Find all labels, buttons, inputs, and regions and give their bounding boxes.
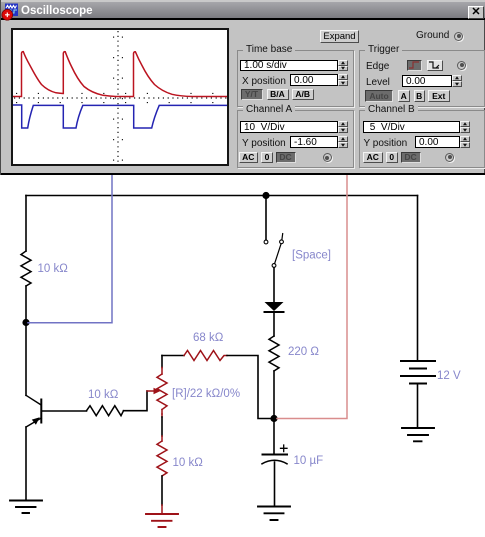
- potentiometer wiper arrow (red): [147, 388, 161, 394]
- Expand button: [320, 30, 359, 43]
- svg-text:[Space]: [Space]: [292, 250, 331, 262]
- resistor R6 220 Ohm (vertical): [269, 336, 279, 371]
- wire: battery to ground: [417, 385, 419, 428]
- wire: 68k corner down to pot top: [161, 356, 163, 368]
- svg-text:220 Ω: 220 Ω: [288, 346, 319, 358]
- battery V1 12 V: [401, 361, 435, 384]
- svg-text:10 µF: 10 µF: [294, 455, 324, 467]
- Channel A group: [237, 110, 354, 168]
- switch S1 [Space]: [264, 234, 283, 268]
- oscilloscope instrument window: [0, 0, 485, 175]
- wire: top rail from left branch to battery: [26, 195, 418, 197]
- resistor R4 68 kOhm (red, horizontal): [184, 351, 227, 361]
- channel B blue trace: [13, 105, 227, 128]
- wire: node B to capacitor: [273, 422, 275, 454]
- label [R]/22 kOhm/0%: [172, 388, 240, 400]
- label 10 uF: [294, 455, 324, 467]
- label 10 kOhm (R5): [173, 457, 204, 469]
- ground (emitter): [10, 501, 42, 514]
- resistor R1 10 kOhm (left vertical): [21, 251, 31, 286]
- wire: R5 to ground (red lower lead): [161, 476, 163, 513]
- wire: scope channel A probe (salmon red): [277, 175, 347, 419]
- wire: left vertical down to R1: [25, 196, 27, 252]
- wire: 68k right lead to corner and down to node B: [227, 356, 271, 419]
- label 12 V: [437, 370, 461, 382]
- ground (red, below R5): [146, 514, 178, 527]
- label [Space]: [292, 250, 331, 262]
- label 10 kOhm (R1): [38, 263, 69, 275]
- dotted horizontal axis: [14, 97, 227, 99]
- svg-text:[R]/22 kΩ/0%: [R]/22 kΩ/0%: [172, 388, 240, 400]
- label 68 kOhm: [193, 332, 224, 344]
- diode D1: [265, 302, 284, 312]
- resistor R2 10 kOhm (base, horizontal): [87, 406, 124, 416]
- wire: R1 bottom to node A: [25, 286, 27, 319]
- wire: diode to R6: [273, 313, 275, 336]
- ground (below capacitor): [258, 507, 290, 521]
- svg-text:10 kΩ: 10 kΩ: [38, 263, 69, 275]
- Channel B group: [359, 110, 485, 168]
- svg-text:10 kΩ: 10 kΩ: [88, 389, 119, 401]
- capacitor C1 10 uF (polarized): [262, 445, 287, 464]
- window icon: [1, 2, 20, 21]
- wire: top rail down to battery: [417, 196, 419, 360]
- 68k left lead wire: [162, 355, 184, 357]
- axis tick dots: [16, 92, 227, 94]
- wire: node C down to switch: [265, 198, 267, 240]
- wire: R2 to potentiometer wiper riser: [124, 391, 148, 411]
- svg-text:10 kΩ: 10 kΩ: [173, 457, 204, 469]
- dotted vertical center line: [117, 31, 119, 164]
- channel A red trace: [13, 52, 227, 97]
- node C junction dot (top rail): [262, 192, 269, 199]
- circuit schematic: [0, 175, 485, 537]
- Time base group: [237, 50, 354, 107]
- wire: capacitor to ground: [274, 462, 276, 506]
- Ground terminal: [416, 30, 449, 41]
- wire: node A down to transistor collector: [25, 326, 27, 395]
- Trigger group: [359, 50, 485, 107]
- node A junction dot: [22, 319, 29, 326]
- wire: pot bottom to R5: [161, 414, 163, 441]
- wire: base wire from Q1 to R2: [42, 410, 87, 412]
- resistor R5 10 kOhm (red, vertical bottom): [157, 441, 167, 476]
- wire: switch to diode: [273, 268, 275, 303]
- ground (below battery): [402, 428, 434, 441]
- node B junction dot: [270, 415, 277, 422]
- wire: emitter down to ground: [25, 427, 27, 500]
- svg-text:12 V: 12 V: [437, 370, 461, 382]
- label 10 kOhm (R2): [88, 389, 119, 401]
- label 220 Ohm: [288, 346, 319, 358]
- potentiometer R3 [R]/22k (red, vertical): [157, 368, 167, 415]
- wire: scope channel B probe (blue): [28, 175, 112, 323]
- transistor Q1 (PNP): [26, 395, 41, 427]
- wire: R6 to node B: [273, 371, 275, 415]
- svg-text:68 kΩ: 68 kΩ: [193, 332, 224, 344]
